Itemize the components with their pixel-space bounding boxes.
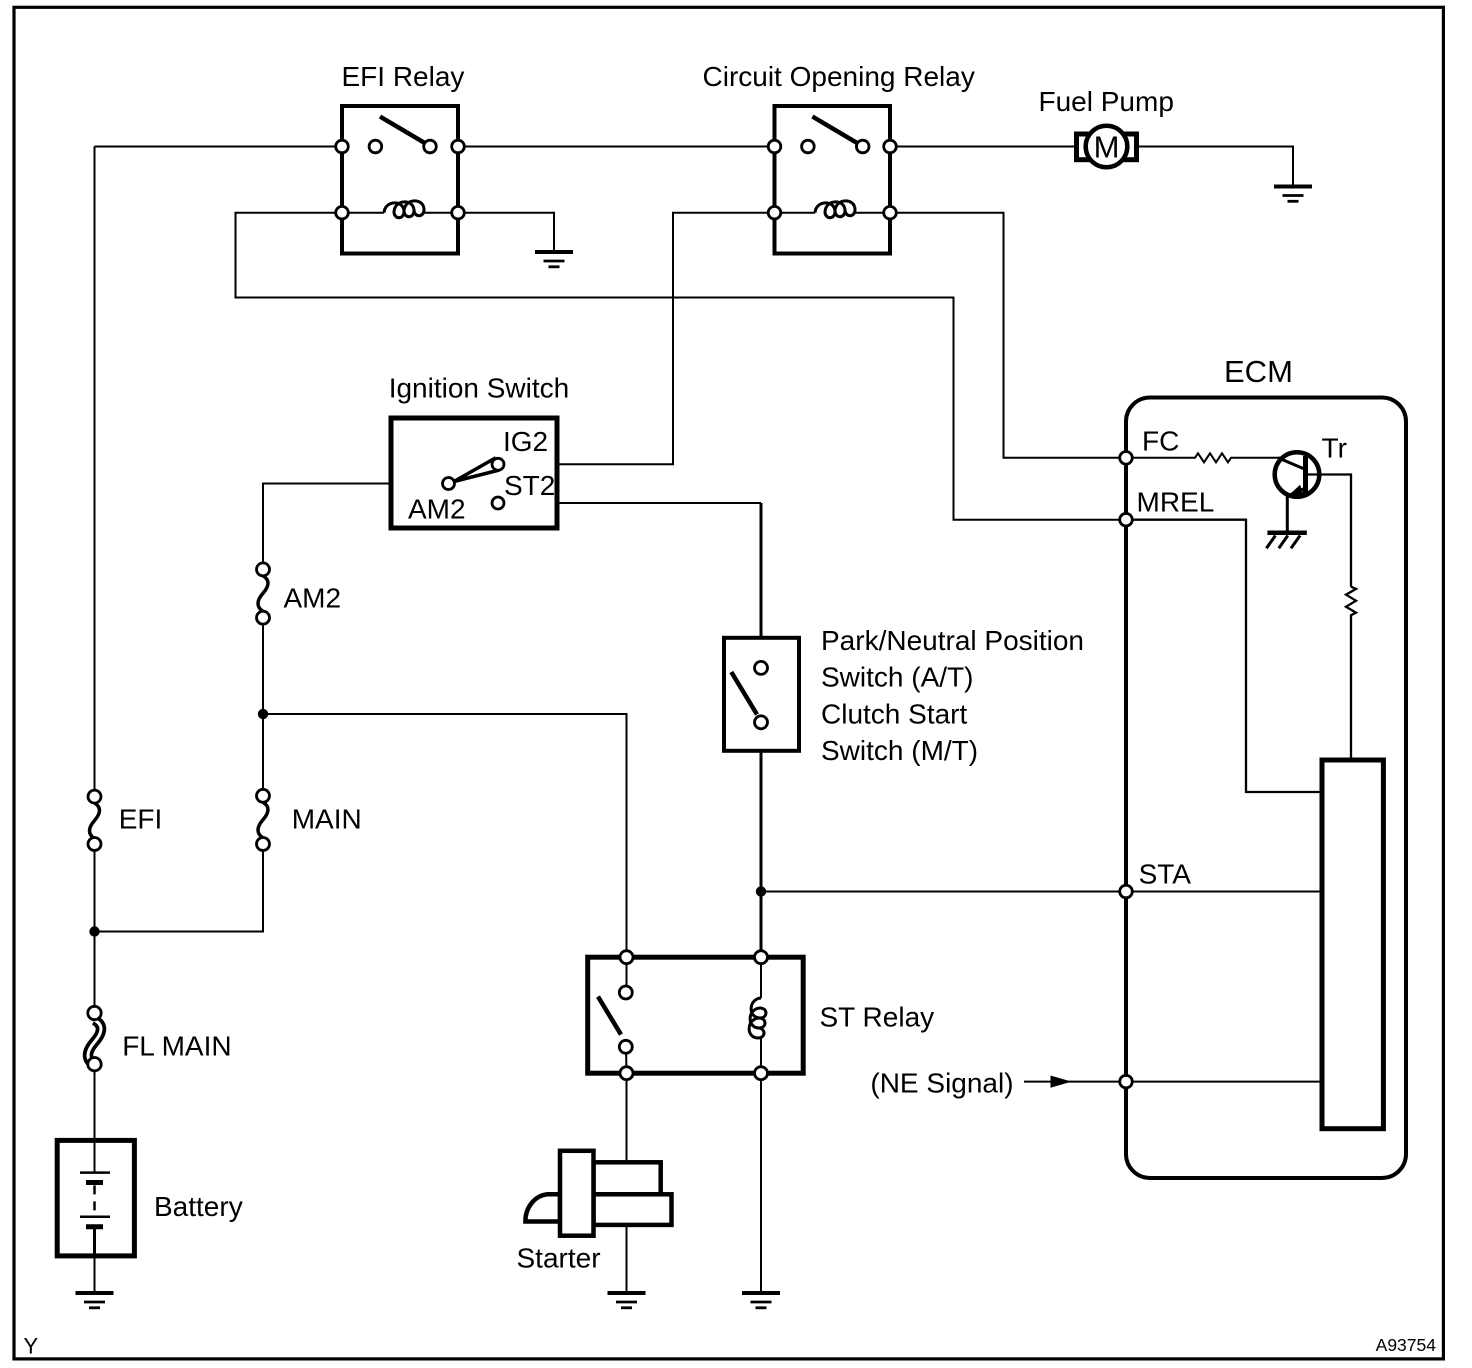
starter motor body lower: [594, 1194, 672, 1225]
terminal: [884, 140, 897, 153]
wire EFI relay to circuit opening relay: [458, 146, 775, 148]
resistor (collector pull): [1346, 587, 1356, 758]
svg-text:FL MAIN: FL MAIN: [122, 1031, 231, 1062]
terminal: [755, 661, 768, 674]
contact circle: [619, 986, 632, 999]
ground (fuel pump): [1274, 187, 1312, 202]
svg-text:EFI Relay: EFI Relay: [342, 61, 465, 92]
svg-text:Circuit Opening Relay: Circuit Opening Relay: [703, 61, 975, 92]
ground (ST relay coil): [742, 1293, 780, 1308]
wire fuel pump to ground: [1137, 147, 1294, 187]
relay Circuit Opening Relay: [768, 106, 896, 254]
terminal: [336, 206, 349, 219]
svg-text:M: M: [1094, 130, 1120, 165]
contact circle: [369, 140, 382, 153]
battery plate -: [86, 1224, 103, 1229]
terminal: [452, 140, 465, 153]
svg-text:AM2: AM2: [408, 494, 466, 525]
switch blade (ignition): [454, 459, 498, 482]
ground (starter): [608, 1293, 646, 1308]
terminal IG2: [492, 458, 504, 470]
wire STA: junction to ECM internal block: [761, 891, 1322, 893]
Tr base lead: [1278, 458, 1306, 470]
wire MREL internal to block: [1133, 520, 1323, 792]
terminal: [620, 951, 633, 964]
Tr emitter lead with arrow: [1287, 488, 1305, 496]
terminal: [768, 140, 781, 153]
inductor EFI relay coil: [348, 212, 451, 214]
svg-text:Y: Y: [24, 1334, 39, 1359]
node junction AM2/ST relay branch: [258, 709, 268, 719]
ground (EFI relay coil): [535, 252, 573, 267]
wire FC: COR coil to ECM FC terminal: [890, 213, 1126, 458]
svg-text:STA: STA: [1139, 859, 1192, 890]
inductor ST relay coil: [760, 957, 762, 1073]
wire MAIN branch down to B+ junction: [95, 714, 264, 932]
battery plate -: [86, 1180, 103, 1185]
motor Fuel Pump: [1077, 126, 1137, 168]
starter solenoid: [560, 1151, 594, 1236]
Tr base bar: [1303, 456, 1308, 494]
svg-text:Fuel Pump: Fuel Pump: [1039, 86, 1174, 117]
svg-text:ST Relay: ST Relay: [820, 1002, 935, 1033]
wire MREL: EFI relay coil to ECM MREL terminal: [236, 213, 1127, 520]
svg-text:EFI: EFI: [119, 804, 163, 835]
svg-text:Switch (A/T): Switch (A/T): [821, 662, 973, 693]
terminal AM2: [443, 478, 455, 490]
ground (battery): [76, 1293, 114, 1308]
wire ST2: ignition switch to park/neutral switch: [504, 502, 761, 504]
terminal: [620, 1067, 633, 1080]
terminal: [768, 206, 781, 219]
resistor (FC to Tr base): [1133, 453, 1281, 462]
relay EFI Relay: [336, 106, 465, 254]
terminal FC: [1120, 452, 1133, 465]
relay ST Relay: [588, 951, 804, 1080]
transistor Tr: [1275, 452, 1351, 587]
terminal: [755, 716, 768, 729]
fuse AM2: [257, 563, 270, 624]
node junction MAIN/B+: [89, 926, 99, 936]
wire circuit opening relay to fuel pump: [890, 146, 1077, 148]
fuse EFI: [88, 790, 101, 850]
svg-text:(NE Signal): (NE Signal): [870, 1068, 1013, 1099]
wire junction to ST relay switch: [263, 714, 627, 957]
battery plate +: [80, 1216, 110, 1219]
wire IG2: COR coil to ignition switch IG2: [504, 213, 775, 465]
wire battery to ground: [94, 1256, 96, 1293]
svg-text:IG2: IG2: [503, 426, 548, 457]
block ECM internal module: [1322, 760, 1383, 1129]
svg-text:MREL: MREL: [1137, 487, 1215, 518]
switch blade (COR contact): [812, 117, 856, 143]
wire ST relay coil to ground: [760, 1073, 762, 1293]
fuse MAIN: [257, 789, 270, 850]
inductor COR coil: [781, 212, 884, 214]
wire EFI relay coil to ground: [458, 213, 554, 252]
switch stub bottom: [625, 1047, 628, 1073]
node junction STA branch: [756, 886, 766, 896]
terminal MREL: [1120, 513, 1133, 526]
terminal: [755, 1067, 768, 1080]
motor Starter: [525, 1151, 671, 1236]
svg-text:Park/Neutral Position: Park/Neutral Position: [821, 625, 1084, 656]
svg-text:Clutch Start: Clutch Start: [821, 698, 967, 729]
ground (Tr emitter, chassis style): [1266, 533, 1306, 549]
wire B+ top feed to EFI relay: [95, 146, 343, 148]
svg-text:Switch (M/T): Switch (M/T): [821, 735, 978, 766]
starter motor body upper: [594, 1162, 661, 1194]
terminal: [884, 206, 897, 219]
contact circle: [619, 1040, 632, 1053]
Tr collector lead: [1306, 475, 1352, 587]
switch Park/Neutral Position Switch: [724, 638, 799, 751]
terminal: [452, 206, 465, 219]
contact circle: [802, 140, 815, 153]
arrow NE signal: [1051, 1076, 1072, 1088]
terminal (EFI relay pin): [336, 140, 349, 153]
switch stub top: [626, 957, 628, 992]
contact circle: [856, 140, 869, 153]
svg-text:AM2: AM2: [284, 583, 342, 614]
svg-text:MAIN: MAIN: [292, 804, 362, 835]
svg-text:ST2: ST2: [504, 470, 555, 501]
switch blade (P/N): [731, 672, 757, 715]
wire left B+ vertical (battery to top): [94, 147, 96, 1173]
battery dashed link: [93, 1185, 96, 1214]
svg-text:ECM: ECM: [1224, 354, 1293, 389]
svg-text:FC: FC: [1142, 426, 1179, 457]
wire park/neutral switch to ST relay coil: [760, 729, 763, 957]
svg-text:Ignition Switch: Ignition Switch: [389, 373, 570, 404]
battery plate +: [80, 1171, 110, 1174]
wire AM2: ignition switch to AM2 fuse: [263, 484, 443, 570]
ECM box: [1126, 398, 1406, 1179]
starter end dome: [525, 1194, 560, 1221]
wire NE signal into ECM: [1024, 1081, 1322, 1083]
battery Battery: [57, 1140, 134, 1256]
switch Ignition Switch: [391, 418, 557, 528]
terminal ST2: [492, 497, 504, 509]
fusible link FL MAIN: [88, 1006, 101, 1071]
terminal: [755, 951, 768, 964]
svg-text:Starter: Starter: [517, 1243, 601, 1274]
svg-text:Battery: Battery: [154, 1191, 243, 1222]
terminal NE: [1120, 1075, 1133, 1088]
switch blade (EFI relay contact): [380, 117, 424, 143]
svg-text:Tr: Tr: [1322, 433, 1347, 464]
terminal STA: [1120, 885, 1133, 898]
wire ST relay switch to starter and ground: [626, 1073, 628, 1293]
contact circle: [424, 140, 437, 153]
wire AM2 fuse to junction: [262, 618, 264, 714]
switch blade (ST relay): [598, 997, 621, 1035]
svg-text:A93754: A93754: [1376, 1335, 1437, 1355]
